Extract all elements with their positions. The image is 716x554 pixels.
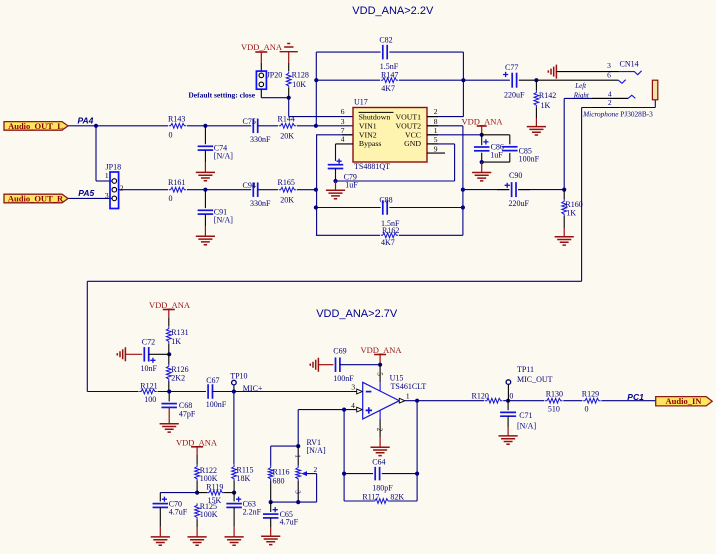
svg-text:VIN1: VIN1: [359, 122, 377, 131]
svg-text:1K: 1K: [566, 208, 576, 217]
resistor R162 4K7: [381, 233, 399, 238]
svg-text:VDD_ANA: VDD_ANA: [241, 42, 283, 52]
svg-text:C94: C94: [243, 181, 256, 190]
svg-text:0: 0: [585, 404, 589, 413]
wire output down to feedback loop: [416, 401, 418, 474]
node R147 right junction: [461, 78, 465, 82]
node shutdown junction: [287, 96, 291, 100]
capacitor C75 330nF: [252, 119, 254, 134]
svg-text:5: 5: [375, 372, 383, 376]
svg-text:4: 4: [351, 401, 355, 410]
ground below C91: [196, 236, 215, 244]
wire R129 to Audio_IN port: [601, 400, 655, 402]
node VIN1 feedback junction: [314, 124, 318, 128]
svg-text:1.5nF: 1.5nF: [380, 62, 399, 71]
capacitor C88 1.5nF: [382, 200, 384, 215]
wire GND pin5 return: [336, 180, 455, 182]
resistor R147 4K7: [381, 78, 399, 83]
svg-text:100nF: 100nF: [206, 400, 227, 409]
svg-text:R143: R143: [168, 114, 185, 123]
svg-text:TS4881QT: TS4881QT: [354, 162, 390, 171]
resistor R117 82K: [373, 499, 390, 504]
power bar above R128: [280, 44, 298, 52]
resistor R144 20K: [279, 123, 297, 128]
resistor R125 100K: [195, 503, 200, 519]
svg-text:[N/A]: [N/A]: [214, 151, 233, 160]
node C64 right junction: [415, 472, 419, 476]
svg-text:2: 2: [120, 184, 124, 193]
svg-text:5: 5: [434, 135, 438, 144]
svg-text:330nF: 330nF: [250, 199, 271, 208]
wire C82 top line: [316, 51, 380, 53]
node C79 ground junction: [333, 179, 337, 183]
wire C67 to TP10: [213, 391, 234, 393]
svg-text:10K: 10K: [292, 80, 306, 89]
svg-text:C64: C64: [372, 458, 385, 467]
svg-text:PC1: PC1: [627, 392, 644, 402]
svg-text:VCC: VCC: [405, 131, 421, 140]
wire C90 line: [463, 189, 509, 191]
svg-text:3: 3: [341, 117, 345, 126]
wire pin5 to op-amp: [379, 365, 381, 383]
svg-text:20K: 20K: [280, 132, 294, 141]
svg-text:20K: 20K: [280, 195, 294, 204]
node U15 pin5 junction: [378, 363, 382, 367]
wire R121 to C67: [158, 391, 207, 393]
svg-text:220uF: 220uF: [504, 91, 525, 100]
wire U15 pin4 net: [298, 409, 357, 411]
svg-text:C88: C88: [379, 195, 392, 204]
resistor R165 20K: [279, 187, 297, 192]
svg-text:R120: R120: [472, 391, 489, 400]
wire CN14 pin2: [582, 107, 656, 109]
node output feedback junction: [415, 399, 419, 403]
ground at CN14 pin3: [548, 65, 556, 79]
svg-text:1uF: 1uF: [345, 181, 358, 190]
wire VCC pin1 to VDD_ANA: [427, 134, 482, 136]
svg-text:R165: R165: [278, 178, 295, 187]
capacitor C91 N/A: [204, 190, 206, 208]
node C74 tap junction: [203, 124, 207, 128]
svg-text:C90: C90: [509, 171, 522, 180]
capacitor C85 100nF: [502, 146, 518, 148]
svg-text:C69: C69: [333, 347, 346, 356]
svg-text:180pF: 180pF: [372, 483, 393, 492]
svg-text:2.2nF: 2.2nF: [243, 508, 262, 517]
ground below R160: [563, 216, 565, 228]
wire R120 to R130: [503, 400, 544, 402]
wire CN14 pin4: [564, 97, 628, 99]
capacitor C65 4.7uF: [270, 502, 272, 512]
svg-text:3: 3: [293, 490, 301, 494]
svg-text:Audio_IN: Audio_IN: [665, 396, 702, 406]
wire U17 pin4 Bypass to C79: [336, 143, 354, 145]
capacitor C68 47pF: [168, 392, 170, 402]
jack plug CN14: [652, 80, 657, 100]
svg-text:100K: 100K: [200, 510, 218, 519]
wire CN14 pin2 down (mic signal): [581, 108, 583, 282]
pin arrow U15 pin4: [357, 407, 363, 412]
node C86/C85 ground junction: [480, 160, 484, 164]
svg-text:TP10: TP10: [230, 372, 247, 381]
capacitor C82 1.5nF: [382, 45, 384, 60]
node RV1 bottom junction: [296, 500, 300, 504]
wire R144 to U17 VIN1: [297, 125, 353, 127]
svg-text:100K: 100K: [200, 474, 218, 483]
test point TP10: [232, 380, 237, 385]
node C88 right junction: [461, 205, 465, 209]
svg-text:VDD_ANA>2.2V: VDD_ANA>2.2V: [352, 5, 434, 17]
wire U15 output to R120: [405, 400, 484, 402]
ground below C86: [481, 162, 483, 172]
wire bottom feedback loop right vertical: [462, 126, 464, 236]
svg-text:Microphone PJ3028B-3: Microphone PJ3028B-3: [582, 110, 653, 119]
node R126/C68 junction: [167, 389, 171, 393]
svg-text:PA4: PA4: [78, 115, 94, 125]
wire C94 to R165: [258, 189, 278, 191]
svg-text:[N/A]: [N/A]: [517, 422, 536, 431]
resistor R121 100: [139, 389, 156, 394]
svg-text:1uF: 1uF: [490, 150, 503, 159]
svg-text:2: 2: [608, 98, 612, 107]
svg-text:4K7: 4K7: [381, 84, 395, 93]
svg-text:R116: R116: [273, 468, 290, 477]
wire C77 to CN14 pin6: [519, 79, 619, 81]
svg-text:C75: C75: [243, 117, 256, 126]
resistor R119 15K: [197, 492, 207, 494]
svg-text:C71: C71: [519, 411, 532, 420]
capacitor C90 220uF: [505, 183, 510, 188]
svg-text:Left: Left: [574, 82, 587, 90]
svg-text:330nF: 330nF: [250, 135, 271, 144]
node pin4/C64 junction: [342, 408, 346, 412]
svg-text:10nF: 10nF: [141, 364, 158, 373]
svg-text:47pF: 47pF: [179, 410, 196, 419]
resistor R129 0: [583, 398, 600, 403]
ground below U15 pin2: [371, 447, 390, 455]
resistor R128 10K: [286, 71, 291, 88]
wire JP20/R128 to shutdown: [260, 89, 262, 98]
ground below C65: [270, 518, 272, 527]
node TP10 junction: [232, 389, 236, 393]
node TP11/C71 junction: [506, 399, 510, 403]
svg-text:VDD_ANA: VDD_ANA: [461, 116, 503, 126]
wire Audio_OUT_R to JP18 pin3 (net PA5): [68, 197, 112, 199]
jumper JP18: [110, 172, 119, 209]
svg-text:2: 2: [314, 465, 318, 474]
wire R115 to node: [233, 481, 235, 493]
svg-text:Shutdown: Shutdown: [359, 113, 391, 122]
ground below C68: [168, 408, 170, 424]
svg-text:7: 7: [341, 126, 345, 135]
svg-text:R128: R128: [292, 71, 309, 80]
svg-text:100nF: 100nF: [333, 374, 354, 383]
ground left of C69: [310, 358, 318, 372]
resistor R126 2K2: [168, 354, 170, 364]
wire U15 pin2 to ground: [379, 410, 381, 419]
wire decoupling loop C86/C85: [482, 134, 510, 136]
resistor R143: [169, 123, 186, 128]
svg-text:VOUT1: VOUT1: [395, 113, 421, 122]
resistor R161: [169, 187, 186, 192]
svg-text:VDD_ANA: VDD_ANA: [360, 345, 402, 355]
wire top feedback loop left vertical: [315, 52, 317, 126]
wire VOUT1 pin2 to top loop: [427, 116, 463, 118]
node VIN2 feedback junction: [314, 188, 318, 192]
svg-text:C72: C72: [142, 338, 155, 347]
ground below C70: [159, 508, 161, 527]
node C91 tap junction: [203, 188, 207, 192]
svg-text:18K: 18K: [237, 474, 251, 483]
svg-text:TS461CLT: TS461CLT: [391, 382, 427, 391]
wire R147 line to C77: [463, 79, 510, 81]
node C88 left junction: [314, 205, 318, 209]
svg-text:R142: R142: [539, 91, 556, 100]
wire ground to C72: [125, 353, 142, 355]
node R122/R125 junction: [195, 491, 199, 495]
ground below C71: [507, 416, 509, 427]
jumper JP20: [256, 71, 266, 89]
ground left of C72: [117, 347, 125, 361]
capacitor C64 180pF: [374, 467, 376, 481]
svg-text:0: 0: [169, 130, 173, 139]
wire JP18 pin2 to R161: [119, 189, 168, 191]
svg-text:R121: R121: [140, 381, 157, 390]
wire R143 to C75: [187, 125, 251, 127]
capacitor C77 220uF: [503, 72, 508, 77]
resistor R160 1K: [563, 190, 565, 200]
svg-text:R117: R117: [362, 493, 379, 502]
wire R130 to R129: [563, 400, 582, 402]
svg-text:8: 8: [434, 117, 438, 126]
resistor R115 18K: [232, 465, 237, 481]
wire C88 line: [316, 207, 381, 209]
svg-text:R162: R162: [382, 226, 399, 235]
capacitor C74 N/A: [204, 126, 206, 144]
node R116 bottom junction: [269, 500, 273, 504]
svg-text:VOUT2: VOUT2: [395, 122, 421, 131]
capacitor C70 4.7uF: [159, 493, 161, 502]
capacitor C94 330nF: [252, 182, 254, 197]
node PA4 junction: [94, 124, 98, 128]
svg-text:R130: R130: [546, 390, 563, 399]
pin stub U17 pin9: [427, 152, 445, 154]
wire node to C70: [160, 492, 197, 494]
wire VIN2 pin7 from feedback: [316, 134, 353, 136]
svg-text:C77: C77: [505, 63, 518, 72]
svg-text:VDD_ANA: VDD_ANA: [149, 300, 191, 310]
ground below C79: [335, 181, 337, 190]
ground below R142: [535, 107, 537, 118]
svg-text:510: 510: [548, 404, 560, 413]
wire C75 to R144: [258, 125, 278, 127]
svg-text:Bypass: Bypass: [359, 139, 382, 148]
wire ground to C69: [318, 364, 333, 366]
svg-text:VIN2: VIN2: [359, 131, 377, 140]
resistor R130 510: [545, 398, 562, 403]
wire CN14 pin3: [556, 71, 619, 73]
ground below C74: [196, 172, 215, 180]
svg-text:1: 1: [406, 391, 410, 400]
resistor R116 680: [270, 446, 272, 466]
ground below C63: [233, 508, 235, 527]
op-amp U15 TS461CLT: [363, 382, 400, 419]
resistor R122 100K: [195, 465, 200, 481]
svg-text:Audio_OUT_R: Audio_OUT_R: [8, 193, 64, 203]
svg-text:R147: R147: [381, 71, 398, 80]
node C72/R126 junction: [167, 352, 171, 356]
node R147 left junction: [314, 78, 318, 82]
svg-text:6: 6: [607, 71, 611, 80]
wire VOUT2 pin8 to bottom loop: [427, 125, 463, 127]
wire R161 to C94: [187, 189, 251, 191]
wire bottom feedback loop left vertical: [316, 135, 318, 236]
pin arrow U15 output: [399, 398, 405, 403]
svg-text:3: 3: [607, 61, 611, 70]
wire TP10 to U15 pin3: [234, 391, 357, 393]
svg-text:82K: 82K: [390, 493, 404, 502]
svg-text:1: 1: [434, 126, 438, 135]
svg-text:Audio_OUT_L: Audio_OUT_L: [8, 121, 63, 131]
wire down to R115: [233, 392, 235, 465]
svg-text:[N/A]: [N/A]: [214, 215, 233, 224]
capacitor C79 1uF: [337, 159, 342, 164]
node C90 right junction: [562, 188, 566, 192]
svg-text:1: 1: [105, 171, 109, 180]
pin arrow U15 pin3: [357, 389, 363, 394]
node VCC junction: [480, 133, 484, 137]
node R142 junction: [534, 78, 538, 82]
wire R117 line: [343, 474, 345, 501]
test point TP11: [506, 380, 511, 385]
wire R131 to node: [168, 343, 170, 354]
svg-text:C82: C82: [379, 36, 392, 45]
svg-text:CN14: CN14: [620, 60, 639, 69]
svg-text:9: 9: [434, 145, 438, 154]
svg-text:2: 2: [434, 107, 438, 116]
svg-text:1K: 1K: [171, 337, 181, 346]
svg-text:R161: R161: [168, 178, 185, 187]
svg-text:TP11: TP11: [517, 365, 534, 374]
svg-text:U17: U17: [354, 97, 368, 106]
svg-text:3: 3: [351, 383, 355, 392]
wire RV1 wiper to bottom: [316, 474, 318, 503]
capacitor C67 100nF: [207, 384, 209, 399]
svg-text:R131: R131: [171, 328, 188, 337]
svg-text:6: 6: [341, 107, 345, 116]
port Audio_OUT_L: [4, 122, 68, 131]
resistor R120 0: [485, 398, 503, 403]
node C90 left junction: [461, 188, 465, 192]
wire Audio_OUT_L to R143 (net PA4): [68, 125, 169, 127]
svg-text:1K: 1K: [541, 101, 551, 110]
svg-text:0: 0: [509, 391, 513, 400]
svg-text:0: 0: [169, 194, 173, 203]
node C64 left junction: [342, 472, 346, 476]
capacitor C72 10nF: [143, 347, 145, 362]
svg-text:R119: R119: [206, 483, 223, 492]
resistor R131 1K: [166, 327, 171, 343]
svg-text:2K2: 2K2: [171, 374, 185, 383]
port Audio_OUT_R: [4, 194, 68, 203]
svg-text:220uF: 220uF: [509, 199, 530, 208]
resistor R142 1K: [535, 80, 537, 90]
wire R147 line: [316, 79, 380, 81]
wire RV1 top to R116: [271, 445, 299, 447]
svg-text:[N/A]: [N/A]: [307, 446, 326, 455]
svg-text:C67: C67: [206, 376, 219, 385]
wiper arrow RV1: [301, 471, 307, 476]
svg-text:4: 4: [341, 135, 345, 144]
svg-text:4.7uF: 4.7uF: [169, 508, 188, 517]
svg-text:VDD_ANA>2.7V: VDD_ANA>2.7V: [316, 308, 398, 320]
wire top feedback loop right vertical: [462, 52, 464, 117]
capacitor C69 100nF: [335, 357, 337, 372]
svg-text:JP20: JP20: [267, 71, 283, 80]
svg-text:PA5: PA5: [78, 188, 94, 198]
svg-text:3: 3: [105, 191, 109, 200]
svg-text:2: 2: [375, 428, 383, 432]
svg-text:GND: GND: [404, 139, 421, 148]
node RV1 top junction: [296, 444, 300, 448]
svg-text:1: 1: [293, 454, 301, 458]
wire C64 line: [344, 473, 373, 475]
wire R162 line: [316, 234, 380, 236]
svg-text:680: 680: [273, 477, 285, 486]
capacitor C63 2.2nF: [233, 493, 235, 502]
svg-text:4K7: 4K7: [381, 238, 395, 247]
ground below R125: [196, 519, 198, 527]
capacitor C86 1uF: [483, 139, 488, 144]
svg-text:VDD_ANA: VDD_ANA: [176, 437, 218, 447]
wire C72 to junction: [149, 353, 170, 355]
svg-text:Default setting: close: Default setting: close: [188, 90, 255, 99]
port Audio_IN: [656, 397, 713, 406]
svg-text:4.7uF: 4.7uF: [280, 518, 299, 527]
wire CN14 pin4 down to C90 line: [563, 98, 565, 189]
capacitor C71 N/A: [507, 401, 509, 411]
wire R165 to feedback node: [297, 189, 317, 191]
svg-text:100nF: 100nF: [519, 154, 540, 163]
wire C69 to VDD node: [340, 364, 380, 366]
svg-text:JP18: JP18: [106, 163, 122, 172]
svg-text:100: 100: [144, 395, 156, 404]
connector CN14 jack contacts: [619, 71, 642, 75]
svg-text:R129: R129: [582, 390, 599, 399]
svg-text:MIC_OUT: MIC_OUT: [517, 375, 553, 384]
wire PA4 down to JP18 pin1: [95, 126, 97, 181]
node R115/R119/C63 junction: [232, 491, 236, 495]
svg-text:R144: R144: [278, 114, 295, 123]
